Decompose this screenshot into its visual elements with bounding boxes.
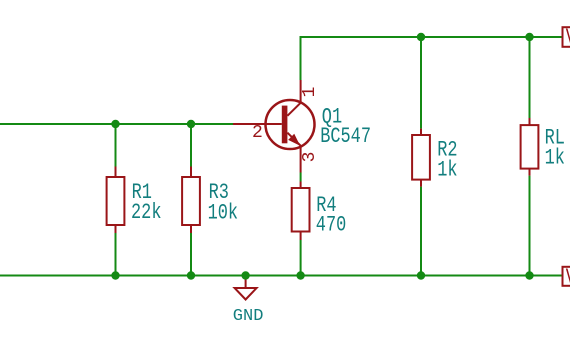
Q1 body circle <box>266 100 315 149</box>
wire Q1 emitter to R4 <box>300 173 302 182</box>
wire top VCC rail with collector riser <box>301 37 563 80</box>
wire R1 bottom <box>115 233 117 276</box>
svg-text:3: 3 <box>300 152 320 163</box>
resistor RL <box>521 118 539 176</box>
svg-text:V: V <box>566 265 570 290</box>
wire R2 top <box>420 37 422 129</box>
svg-text:1k: 1k <box>545 145 565 170</box>
svg-text:BC547: BC547 <box>320 124 371 149</box>
junction bottom rail R1 <box>111 271 119 279</box>
resistor R2 <box>412 129 430 187</box>
junction base rail R3 <box>187 120 195 128</box>
wire RL bottom <box>529 176 531 276</box>
junction top rail RL <box>525 33 533 41</box>
svg-text:V: V <box>566 25 570 50</box>
svg-text:470: 470 <box>316 213 346 238</box>
svg-text:GND: GND <box>233 307 264 326</box>
svg-text:1k: 1k <box>437 158 457 183</box>
wire RL top <box>529 37 531 118</box>
wire R3 bottom <box>190 233 192 276</box>
wire R2 bottom <box>420 187 422 276</box>
wire R1 top <box>115 124 117 167</box>
resistor R1 <box>107 167 125 234</box>
svg-text:22k: 22k <box>131 200 161 225</box>
svg-text:10k: 10k <box>208 201 238 226</box>
wire base rail from left edge to Q1 base <box>0 123 233 125</box>
Q1 emitter lead <box>287 133 300 173</box>
transistor Q1 BC547 <box>233 80 315 173</box>
Q1 collector lead <box>287 80 300 116</box>
junction bottom rail R2 <box>417 271 425 279</box>
junction bottom rail RL <box>525 271 533 279</box>
resistor R4 <box>292 182 310 241</box>
global label V- bottom right <box>563 265 570 290</box>
wire bottom rail <box>0 275 563 277</box>
wire R4 bottom <box>300 240 302 276</box>
global label V+ top right <box>563 25 570 50</box>
Q1 base pin lead <box>233 123 282 125</box>
wire R3 top <box>190 124 192 167</box>
resistor R3 <box>182 167 200 234</box>
ground symbol <box>235 276 257 300</box>
junction bottom rail R3 <box>187 271 195 279</box>
Q1 emitter arrow <box>289 135 299 145</box>
svg-text:2: 2 <box>252 123 263 143</box>
junction bottom rail GND <box>241 271 249 279</box>
junction top rail R2 <box>417 33 425 41</box>
junction bottom rail R4 <box>296 271 304 279</box>
junction base rail R1 <box>111 120 119 128</box>
Q1 base bar <box>282 106 288 144</box>
svg-text:1: 1 <box>300 87 320 98</box>
